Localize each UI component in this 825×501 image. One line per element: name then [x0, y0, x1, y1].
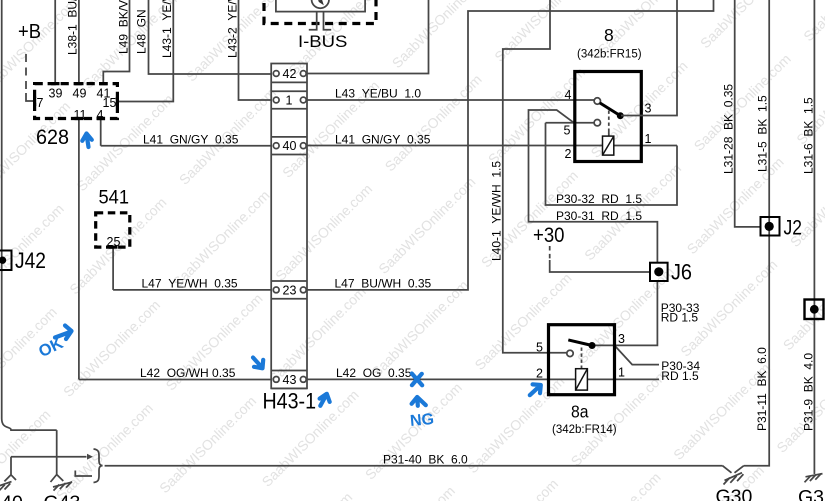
wire +30 to J6 — [550, 260, 650, 272]
svg-text:39: 39 — [49, 87, 63, 101]
ground G3 — [806, 474, 823, 477]
svg-text:42: 42 — [283, 67, 297, 81]
svg-text:4: 4 — [97, 108, 104, 122]
connector 628 (dashed box) — [35, 84, 118, 119]
wire: bottom-left ground branch G43 — [51, 430, 64, 482]
wire L31-28 BK 0.35: top edge to J2 — [735, 0, 761, 227]
svg-text:L48 GN: L48 GN — [135, 9, 149, 54]
wire: +B dashed lead — [25, 54, 27, 94]
svg-text:G40: G40 — [0, 492, 23, 501]
wire L47 BU/WH 0.35: H43-1 pin 23 up over to top edge — [306, 0, 714, 290]
wire P30-34 RD 1.5 stub from relay 8a pin 3 — [616, 347, 660, 365]
wire: +B to 628 pin 7 — [26, 93, 34, 101]
pin 1 cell — [271, 91, 307, 109]
connector J2 — [761, 217, 780, 236]
svg-text:L41 GN/GY 0.35: L41 GN/GY 0.35 — [143, 133, 239, 147]
wire P30-33 RD 1.5: J6 down to relay 8a pin 3 — [594, 281, 657, 345]
blue annotation arrow after H43-1 (up-right) — [320, 394, 330, 406]
wire: H43-1 pin 42 to top edge — [306, 0, 429, 74]
blue annotation OK with arrow — [36, 326, 72, 362]
relay 8a pin 5 contact — [567, 350, 573, 356]
wire L41 GN/GY 0.35: 628 pin 4 to H43-1 pin 40 — [101, 145, 272, 147]
connector J42 — [0, 251, 12, 271]
wire L43-2 YE: feed to H43-1 pin 1 — [239, 0, 273, 100]
svg-text:P31-11 BK 6.0: P31-11 BK 6.0 — [755, 347, 769, 431]
svg-text:541: 541 — [99, 187, 130, 209]
gauge symbol circle — [312, 0, 329, 8]
svg-text:23: 23 — [283, 283, 297, 297]
relay 8 common dot — [617, 112, 624, 119]
svg-text:RD 1.5: RD 1.5 — [661, 369, 699, 383]
svg-text:3: 3 — [618, 332, 625, 346]
relay 8 pin 4 contact — [594, 98, 600, 104]
svg-text:1: 1 — [618, 366, 625, 380]
svg-text:I-BUS: I-BUS — [298, 33, 347, 51]
pin 43 cell — [271, 371, 307, 389]
wire P31-40 BK 6.0: brace to G30 ground — [105, 465, 723, 467]
blue annotation up arrow above NG — [412, 397, 426, 406]
svg-text:H43-1: H43-1 — [263, 389, 317, 414]
blue annotation X on L42 OG wire — [412, 374, 422, 386]
wire +30 dashed lead — [549, 246, 551, 261]
wire L31-5 BK 1.5 / P31-11 BK 6.0: top edge through J2 to G30 — [744, 0, 769, 466]
wire P30-32 RD 1.5: relay 8 pin 5 to pin 1 loop — [546, 123, 678, 205]
wire L48 GN: feed to H43-1 pin 42 — [149, 0, 273, 74]
relay 8a coil link dashed — [581, 348, 583, 369]
svg-text:(342b:FR14): (342b:FR14) — [552, 424, 617, 436]
wire: 628 pin 11 down — [78, 119, 80, 380]
relay 8a coil — [576, 369, 588, 390]
svg-text:L49 BK/VT: L49 BK/VT — [117, 0, 131, 54]
svg-text:L40-1 YE/WH 1.5: L40-1 YE/WH 1.5 — [490, 161, 504, 261]
ground G43 — [53, 482, 72, 487]
pin 42 cell — [271, 81, 307, 83]
svg-text:P30-31 RD 1.5: P30-31 RD 1.5 — [556, 209, 642, 223]
svg-text:G3: G3 — [798, 487, 824, 501]
wire: bottom-left horizontal with arrow to brace — [11, 456, 87, 458]
svg-text:L43-2 YE/W: L43-2 YE/W — [226, 0, 240, 58]
relay 8 pin 5 contact — [594, 120, 600, 126]
svg-text:L31-28 BK 0.35: L31-28 BK 0.35 — [722, 84, 736, 174]
svg-text:L42 OG/WH 0.35: L42 OG/WH 0.35 — [140, 366, 236, 380]
svg-text:15: 15 — [103, 96, 117, 110]
ground G40 — [0, 482, 12, 487]
svg-text:2: 2 — [565, 147, 572, 161]
wire L31-6 BK 1.5 / P31-9 BK 4.0: top edge to G3 ground — [813, 0, 815, 474]
svg-text:RD 1.5: RD 1.5 — [661, 311, 699, 325]
svg-text:J6: J6 — [671, 260, 692, 285]
I-BUS module dashed box — [264, 0, 376, 24]
svg-text:8a: 8a — [571, 402, 589, 422]
wire P30-31 RD 1.5: J6 up to relay 8 pin 5 jog — [529, 110, 658, 263]
svg-text:43: 43 — [283, 373, 297, 387]
pin 40 cell — [271, 137, 307, 155]
brace } grouping wires into P31-40 — [94, 449, 103, 483]
wire L43 YE/BU 1.0: H43-1 pin 1 to relay 8 pin 4 — [306, 99, 595, 101]
wire L42 OG 0.35: H43-1 pin 43 to relay 8a pin 2 / coil / pin 1 — [306, 378, 659, 380]
svg-text:L43-1 YE/W: L43-1 YE/W — [160, 0, 174, 58]
svg-text:P31-9 BK 4.0: P31-9 BK 4.0 — [802, 353, 816, 431]
svg-text:49: 49 — [73, 87, 87, 101]
svg-text:P30-32 RD 1.5: P30-32 RD 1.5 — [556, 192, 642, 206]
relay 8 coil link dashed — [608, 111, 610, 132]
svg-text:3: 3 — [645, 102, 652, 116]
I-BUS module inner box — [276, 0, 365, 12]
relay 8a switch blade — [568, 340, 590, 345]
svg-text:+B: +B — [18, 21, 41, 43]
svg-text:8: 8 — [604, 25, 614, 45]
svg-text:7: 7 — [37, 96, 44, 110]
svg-text:NG: NG — [409, 411, 434, 430]
svg-text:25: 25 — [107, 235, 121, 249]
wire L40-1 YE/WH 1.5: top edge to relay 8a pin 5 — [503, 0, 550, 353]
svg-text:J2: J2 — [784, 216, 803, 240]
wire L49 BK/VT: feed to 628 pin 41 — [103, 0, 129, 83]
svg-text:40: 40 — [283, 139, 297, 153]
relay 8 switch blade — [600, 103, 619, 115]
svg-text:(342b:FR15): (342b:FR15) — [577, 49, 642, 61]
svg-text:2: 2 — [536, 367, 543, 381]
relay 8 pin 3 wire to top edge — [621, 0, 677, 116]
wire: relay 8 pin 5 lead inside — [546, 122, 595, 124]
svg-text:L31-6 BK 1.5: L31-6 BK 1.5 — [802, 97, 816, 174]
relay 8 box — [575, 72, 642, 162]
wire: pin 39 feed from top — [54, 0, 56, 83]
svg-text:P31-40 BK 6.0: P31-40 BK 6.0 — [383, 453, 468, 467]
svg-text:J42: J42 — [15, 248, 46, 273]
svg-text:L38-1 BU/: L38-1 BU/ — [66, 0, 80, 55]
wire: bottom-left ground branch G40 — [4, 457, 16, 482]
blue annotation arrow at 8a pin 2 (up-right) — [530, 384, 541, 395]
relay 8 coil — [603, 136, 614, 155]
wire: small stub into brace — [75, 471, 92, 477]
svg-text:L42 OG 0.35: L42 OG 0.35 — [336, 366, 412, 380]
svg-text:+30: +30 — [533, 224, 565, 247]
svg-text:1: 1 — [645, 132, 652, 146]
svg-text:L41 GN/GY 0.35: L41 GN/GY 0.35 — [335, 133, 431, 147]
wire: left edge vertical to J42 and bottom hook — [2, 0, 57, 430]
relay 8a common dot — [589, 342, 596, 349]
arrowhead — [87, 454, 93, 460]
gauge needle — [314, 0, 322, 2]
connector 541 (dashed box) — [96, 213, 130, 247]
svg-text:1: 1 — [286, 94, 293, 108]
wire: relay 8a pin 5 lead inside — [548, 352, 567, 354]
svg-text:L31-5 BK 1.5: L31-5 BK 1.5 — [756, 95, 770, 172]
ground G30 — [723, 466, 744, 473]
blue annotation arrow at H43-1 pin 43 (down-right) — [253, 358, 263, 369]
wire L38-1 BU: pin 49 feed from top — [78, 0, 80, 83]
I-BUS twisted pair drops — [309, 12, 331, 30]
connector H43-1 body — [271, 64, 307, 389]
wire L42 OG/WH 0.35: 628 pin 11 to H43-1 pin 43 — [79, 379, 272, 381]
svg-text:5: 5 — [536, 341, 543, 355]
svg-text:5: 5 — [564, 124, 571, 138]
wire: 541 pin 25 down — [112, 248, 114, 290]
relay 8a box — [549, 325, 615, 395]
svg-text:4: 4 — [565, 88, 572, 102]
svg-text:G43: G43 — [44, 492, 81, 501]
wire L41 GN/GY 0.35: H43-1 pin 40 to relay 8 pin 2 / coil / pin 1 — [306, 145, 677, 147]
svg-text:11: 11 — [74, 108, 87, 122]
wire: 628 pin 4 down — [100, 119, 102, 146]
wire L43-1 YE: feed to 628 pin 15 — [118, 0, 173, 102]
connector J6 — [650, 263, 668, 281]
svg-text:L47 BU/WH 0.35: L47 BU/WH 0.35 — [335, 277, 432, 291]
pin 23 cell — [271, 281, 307, 299]
svg-text:L47 YE/WH 0.35: L47 YE/WH 0.35 — [142, 277, 238, 291]
wire L47 YE/WH 0.35: 541 pin 25 to H43-1 pin 23 — [113, 289, 272, 291]
svg-text:G30: G30 — [716, 486, 753, 501]
svg-text:628: 628 — [36, 126, 69, 149]
svg-text:L43 YE/BU 1.0: L43 YE/BU 1.0 — [335, 87, 421, 101]
connector (unlabeled) on L31-6 — [805, 300, 824, 320]
blue annotation arrow at 628 pin 11 — [82, 134, 92, 148]
